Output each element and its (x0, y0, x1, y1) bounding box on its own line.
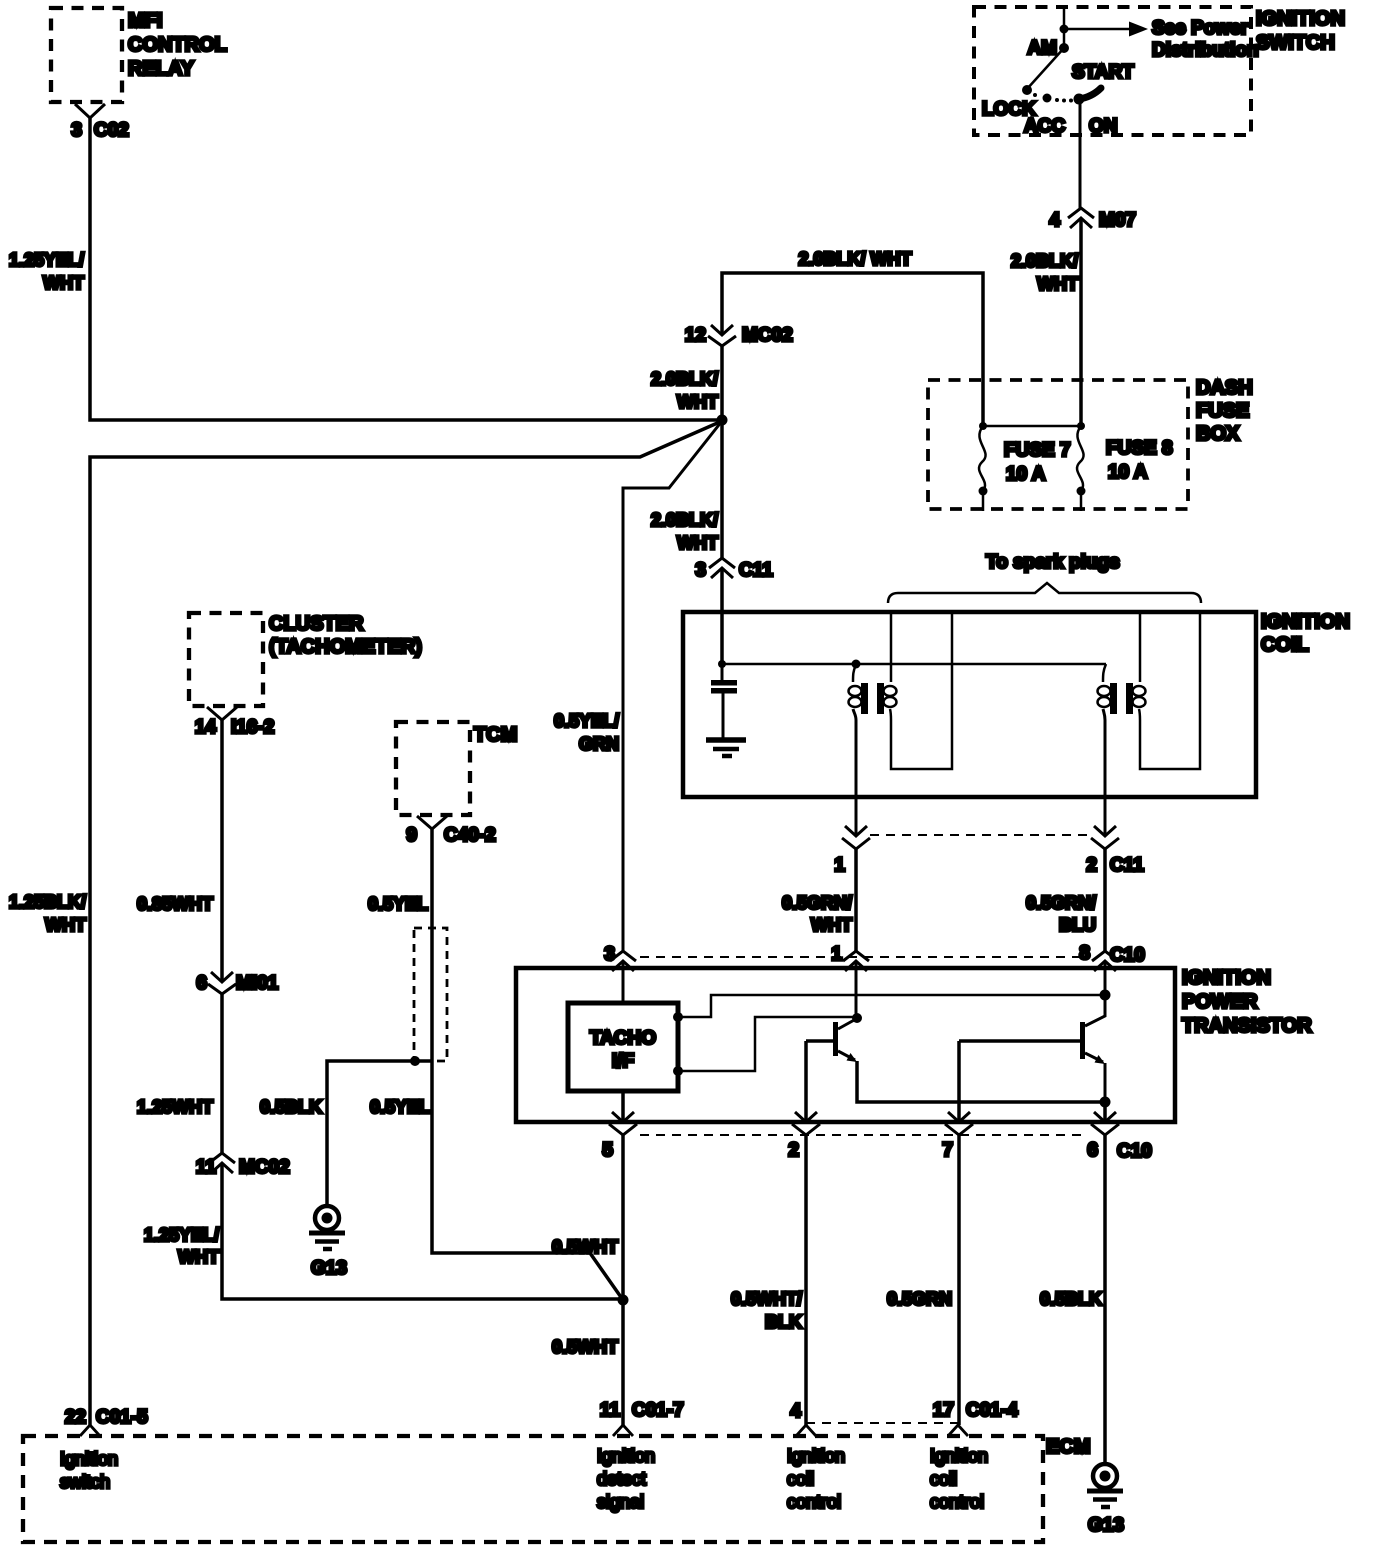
capacitor C1 plates (711, 680, 737, 686)
connector C10 pin 7 (945, 1112, 973, 1135)
Q2 emitter node dot (1100, 1097, 1111, 1108)
svg-text:Distribution: Distribution (1152, 40, 1259, 61)
wire 1.25WHT MI01 to MC02 (220, 994, 224, 1153)
LOCK contact dot (1022, 85, 1032, 95)
connector MI01 pin 6 (208, 972, 236, 994)
wire 2.0BLK/WHT fuse 7 branch (722, 273, 983, 426)
transistor Q2 emitter arrow (1095, 1055, 1106, 1064)
svg-text:Ignition: Ignition (597, 1446, 655, 1466)
TCM box (396, 722, 470, 815)
transistor Q2 collector stroke (1085, 995, 1105, 1026)
svg-text:C01-7: C01-7 (632, 1400, 684, 1421)
svg-text:5: 5 (602, 1140, 613, 1161)
svg-text:1: 1 (834, 855, 845, 876)
dashed tie line C10 top (640, 956, 1088, 958)
wire 0.5BLK shield to G13 (327, 1061, 433, 1205)
svg-text:AM: AM (1027, 38, 1057, 59)
svg-text:BLU: BLU (1059, 915, 1096, 935)
svg-text:WHT: WHT (45, 915, 86, 935)
tacho output node top dot (673, 1012, 683, 1022)
svg-text:C11: C11 (1110, 855, 1144, 876)
svg-text:See Power: See Power (1152, 18, 1249, 39)
svg-text:MFI: MFI (128, 10, 162, 32)
transformer T2 secondary bottom lead to spark plug (1139, 614, 1200, 769)
svg-text:4: 4 (790, 1401, 801, 1422)
wire 0.5WHT pin 5 to ECM 11 (621, 1135, 625, 1425)
svg-text:4: 4 (1049, 210, 1060, 231)
svg-text:I16-2: I16-2 (231, 717, 274, 738)
wire C10-1 to Q1 collector (855, 961, 858, 1018)
wire 0.5WHT/BLK pin 2 to ECM 4 (804, 1135, 808, 1425)
ground G13 left (315, 1206, 339, 1230)
transistor Q1 collector stroke (838, 1019, 856, 1029)
node corner dot (718, 660, 726, 668)
wire to power distribution (1064, 28, 1129, 31)
Q2 collector node dot (1100, 990, 1111, 1001)
ECM pin 4 caret (796, 1425, 816, 1436)
dashed tie line C10 bottom (640, 1134, 1088, 1136)
svg-text:8: 8 (1079, 943, 1090, 964)
ON contact dot (1074, 94, 1085, 105)
svg-text:C01-4: C01-4 (966, 1400, 1018, 1421)
svg-text:0.5BLK: 0.5BLK (260, 1097, 322, 1117)
svg-text:M07: M07 (1099, 210, 1136, 231)
fuse 7 element (979, 426, 986, 491)
svg-text:17: 17 (933, 1400, 954, 1421)
svg-text:FUSE: FUSE (1196, 400, 1249, 422)
svg-text:3: 3 (604, 944, 615, 965)
svg-text:IGNITION: IGNITION (1182, 967, 1271, 989)
transformer T2 core bars (1110, 683, 1117, 714)
svg-text:COIL: COIL (1261, 634, 1309, 656)
transistor Q1 base bar (833, 1022, 838, 1056)
svg-text:0.5YEL: 0.5YEL (370, 1097, 430, 1117)
svg-text:MI01: MI01 (236, 973, 279, 994)
svg-text:2.0BLK/: 2.0BLK/ (651, 369, 718, 389)
wire MC02 to node A (720, 346, 724, 420)
arrow to See Power Distribution (1129, 22, 1148, 37)
fuse 8 element (1077, 426, 1084, 491)
transistor Q1 base wire (806, 1039, 833, 1043)
transistor Q2 base bar (1080, 1022, 1085, 1059)
svg-text:RELAY: RELAY (128, 58, 195, 80)
svg-text:C01-5: C01-5 (96, 1407, 148, 1428)
node A junction dot (717, 415, 728, 426)
transformer T2 primary lead (1103, 664, 1106, 682)
transformer T1 core bars (861, 683, 868, 714)
transformer T2 primary winding (1098, 686, 1111, 696)
transistor Q1 emitter arrow (847, 1053, 858, 1062)
wire emitter node to pin 6 (1103, 1102, 1107, 1122)
connector M07 pin 4 (1068, 208, 1094, 228)
svg-text:I/F: I/F (612, 1051, 634, 1072)
transistor Q1 emitter stroke (838, 1051, 855, 1060)
svg-text:12: 12 (685, 325, 706, 346)
wire 2.0BLK/WHT node A down to C11 pin 3 (720, 420, 724, 558)
svg-text:G13: G13 (1088, 1515, 1124, 1536)
connector C11 pin 3 (709, 558, 735, 578)
ignition power transistor box (516, 968, 1175, 1122)
wire tacho to pin 5 (621, 1091, 625, 1122)
svg-text:1.25WHT: 1.25WHT (137, 1097, 213, 1117)
wire 2.0BLK/WHT M07 to fuse 8 (1079, 218, 1083, 426)
ECM pin 17 caret (948, 1425, 968, 1436)
ACC contact dot (1043, 94, 1052, 103)
Q1 emitter wire to common (857, 1061, 1105, 1102)
dashed tie line C01-4 (806, 1422, 958, 1424)
svg-text:signal: signal (597, 1492, 644, 1512)
wire tacho to Q1 collector (678, 1017, 856, 1071)
transformer T1 primary bottom lead wire (853, 709, 856, 836)
svg-text:0.5GRN: 0.5GRN (887, 1289, 952, 1309)
svg-text:TRANSISTOR: TRANSISTOR (1182, 1015, 1312, 1037)
dotted detent arc (1033, 93, 1037, 97)
svg-text:ACC: ACC (1024, 116, 1065, 137)
svg-text:10 A: 10 A (1006, 464, 1046, 485)
shield drain dot (410, 1056, 420, 1066)
svg-text:C10: C10 (1110, 945, 1145, 966)
wire 1.25BLK/WHT from node A to ECM pin 22 (90, 421, 722, 1425)
ignition switch AM feed wire (1063, 7, 1066, 48)
wire 0.5GRN/WHT C11-1 to C10-1 (854, 849, 858, 951)
svg-text:WHT: WHT (811, 915, 852, 935)
svg-text:MC02: MC02 (239, 1157, 290, 1178)
svg-text:Ignition: Ignition (60, 1449, 118, 1469)
ECM box (23, 1436, 1043, 1542)
svg-text:3: 3 (695, 560, 706, 581)
svg-text:0.5WHT/: 0.5WHT/ (731, 1289, 802, 1309)
wire C10-8 to Q2 collector (1104, 961, 1107, 995)
svg-text:2.0BLK/: 2.0BLK/ (1011, 251, 1078, 271)
tacho output node bottom dot (673, 1066, 683, 1076)
wire 1.25YEL/WHT from MFI relay to node A (90, 118, 719, 420)
svg-text:START: START (1072, 62, 1134, 83)
connector C10 pin 5 (609, 1112, 637, 1135)
svg-text:Ignition: Ignition (787, 1446, 845, 1466)
svg-text:G13: G13 (311, 1258, 347, 1279)
ground in coil box (706, 737, 746, 743)
connector MC02 pin 11 (209, 1153, 235, 1173)
detect signal junction dot (618, 1295, 629, 1306)
svg-text:coil: coil (930, 1469, 957, 1489)
wire into ignition coil (720, 568, 724, 664)
transistor Q2 emitter stroke (1085, 1053, 1103, 1062)
svg-text:DASH: DASH (1196, 377, 1253, 399)
connector C10 pin 1 (843, 951, 869, 971)
svg-text:0.5YEL/: 0.5YEL/ (554, 711, 619, 731)
dashed tie line C11 (870, 834, 1091, 836)
wire 0.5GRN pin 7 to ECM 17 (957, 1135, 961, 1425)
svg-text:0.5WHT: 0.5WHT (552, 1237, 618, 1257)
AM contact dot (1059, 43, 1069, 53)
wire Q2 base to pin 7 (957, 1041, 961, 1122)
brace to spark plugs (888, 583, 1201, 603)
capacitor C1 lower lead (722, 693, 725, 738)
ECM pin 22 caret (80, 1425, 100, 1436)
TACHO I/F box (568, 1003, 678, 1091)
transformer T1 primary winding (849, 686, 862, 696)
ground G13 right (1093, 1464, 1117, 1488)
svg-text:SWITCH: SWITCH (1256, 32, 1335, 54)
svg-text:WHT: WHT (1037, 274, 1078, 294)
svg-text:MC02: MC02 (742, 325, 793, 346)
svg-text:C02: C02 (94, 120, 129, 141)
svg-text:0.5YEL: 0.5YEL (368, 894, 428, 914)
TCM pin V (417, 816, 447, 829)
cluster pin V (207, 707, 237, 720)
svg-text:9: 9 (406, 825, 417, 846)
connector C11 pin 2 (1091, 826, 1119, 849)
svg-text:10 A: 10 A (1108, 462, 1148, 483)
MFI control relay pin V (75, 104, 105, 118)
svg-text:BOX: BOX (1196, 423, 1240, 445)
svg-text:WHT: WHT (677, 392, 718, 412)
svg-text:0.5WHT: 0.5WHT (552, 1337, 618, 1357)
svg-text:2: 2 (1086, 855, 1097, 876)
svg-text:TCM: TCM (474, 724, 517, 746)
svg-text:WHT: WHT (178, 1247, 219, 1267)
transformer T2 secondary winding (1133, 686, 1146, 696)
svg-text:CONTROL: CONTROL (128, 34, 227, 56)
svg-text:ECM: ECM (1046, 1436, 1090, 1458)
svg-text:6: 6 (196, 973, 207, 994)
wire 0.5BLK pin 6 to G13 (1103, 1135, 1107, 1463)
dash fuse box (928, 380, 1188, 509)
connector C10 pin 6 (1091, 1112, 1119, 1135)
capacitor C1 lead (721, 664, 724, 680)
fuse 7 top dot (979, 422, 987, 430)
MFI control relay box (51, 8, 122, 102)
connector C10 pin 8 (1092, 951, 1118, 971)
switch wiper arm wire (1027, 48, 1064, 89)
svg-text:1: 1 (831, 944, 842, 965)
svg-text:C10: C10 (1117, 1141, 1152, 1162)
svg-text:0.85WHT: 0.85WHT (137, 894, 213, 914)
wire tacho to Q2 collector (678, 995, 1105, 1017)
svg-text:2.0BLK/ WHT: 2.0BLK/ WHT (798, 249, 911, 269)
wire ON contact down to M07 (1079, 99, 1082, 208)
svg-text:WHT: WHT (43, 273, 84, 293)
svg-text:1.25YEL/: 1.25YEL/ (144, 1225, 219, 1245)
wire pin 3 to tacho (622, 961, 625, 1003)
svg-text:1.25BLK/: 1.25BLK/ (9, 892, 86, 912)
svg-text:detect: detect (597, 1469, 646, 1489)
transformer T1 secondary bottom lead to spark plug (890, 614, 952, 769)
svg-text:ON: ON (1089, 116, 1118, 137)
svg-text:11: 11 (600, 1400, 621, 1421)
transformer T1 primary lead (853, 665, 856, 682)
svg-text:2: 2 (788, 1140, 799, 1161)
connector C11 pin 1 (842, 826, 870, 849)
node T1 junction dot (852, 660, 861, 669)
svg-text:control: control (930, 1492, 984, 1512)
svg-text:control: control (787, 1492, 841, 1512)
coil internal supply node wire (722, 663, 1106, 666)
svg-text:To spark plugs: To spark plugs (986, 552, 1120, 573)
wire Q1 base to pin 2 (804, 1041, 808, 1122)
transformer T1 secondary winding (884, 686, 897, 696)
wire 0.5GRN/BLU C11-2 to C10-8 (1103, 849, 1107, 951)
svg-text:CLUSTER: CLUSTER (269, 613, 364, 635)
ignition switch box (974, 7, 1251, 135)
svg-text:TACHO: TACHO (590, 1028, 656, 1049)
wire 0.5YEL TCM to detect node (432, 829, 623, 1300)
svg-text:BLK: BLK (765, 1312, 802, 1332)
wire 0.5YEL/GRN node A to transistor pin 3 (623, 421, 722, 951)
svg-text:2.0BLK/: 2.0BLK/ (651, 510, 718, 530)
svg-text:switch: switch (60, 1472, 110, 1492)
switch rotor stroke (1079, 88, 1101, 99)
svg-text:FUSE 8: FUSE 8 (1106, 438, 1173, 459)
svg-text:(TACHOMETER): (TACHOMETER) (269, 636, 422, 658)
node battery feed dot (1060, 25, 1069, 34)
svg-text:22: 22 (65, 1407, 86, 1428)
cable shield box (414, 928, 447, 1061)
fuse link bus wire (983, 425, 1081, 428)
connector C10 pin 2 (792, 1112, 820, 1135)
cluster tachometer box (189, 613, 263, 706)
fuse 8 top dot (1077, 422, 1085, 430)
svg-text:C11: C11 (739, 560, 773, 581)
svg-text:IGNITION: IGNITION (1261, 611, 1350, 633)
svg-text:IGNITION: IGNITION (1256, 8, 1345, 30)
transistor Q2 base wire (959, 1039, 1080, 1043)
svg-text:WHT: WHT (677, 533, 718, 553)
ECM pin 11 caret (613, 1425, 633, 1436)
svg-text:1.25YEL/: 1.25YEL/ (9, 250, 84, 270)
svg-text:3: 3 (71, 120, 82, 141)
svg-text:FUSE 7: FUSE 7 (1004, 440, 1071, 461)
svg-text:11: 11 (196, 1157, 217, 1178)
svg-text:coil: coil (787, 1469, 814, 1489)
transformer T2 primary bottom lead wire (1103, 709, 1105, 836)
svg-text:6: 6 (1087, 1140, 1098, 1161)
ignition coil box (683, 612, 1256, 797)
transformer T1 secondary top lead to spark plug (890, 614, 893, 682)
wire 0.85WHT cluster to MI01 (220, 720, 224, 982)
svg-text:C40-2: C40-2 (444, 825, 496, 846)
Q1 collector node dot (852, 1013, 862, 1023)
wire 1.25YEL/WHT MC02 to detect node (222, 1163, 623, 1299)
svg-text:Ignition: Ignition (930, 1446, 988, 1466)
svg-text:GRN: GRN (579, 734, 619, 754)
svg-text:0.5GRN/: 0.5GRN/ (1026, 893, 1096, 913)
connector MC02 pin 12 (708, 325, 736, 346)
transformer T2 secondary top lead to spark plug (1139, 614, 1142, 682)
svg-text:POWER: POWER (1182, 991, 1258, 1013)
Q2 emitter wire (1104, 1063, 1107, 1102)
svg-text:0.5GRN/: 0.5GRN/ (782, 893, 852, 913)
connector C10 pin 3 (610, 951, 636, 971)
svg-text:7: 7 (942, 1140, 953, 1161)
svg-text:14: 14 (195, 717, 217, 738)
svg-text:0.5BLK: 0.5BLK (1040, 1289, 1102, 1309)
